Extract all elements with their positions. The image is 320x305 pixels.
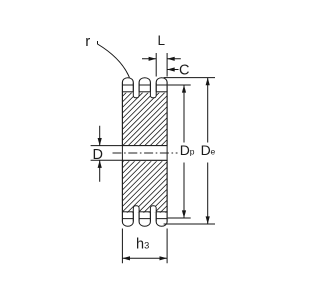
arrowhead h3 right <box>160 256 168 260</box>
groove top 1 <box>133 91 139 98</box>
arrowhead Dp top <box>182 85 186 93</box>
dim D arrow tails <box>99 126 101 182</box>
arrowhead De top <box>206 78 210 86</box>
body right edge <box>166 82 168 221</box>
dim Dp line <box>183 85 185 218</box>
svg-text:Dp: Dp <box>180 142 195 158</box>
dim Dp extension bottom <box>168 217 191 219</box>
tooth 2 bottom cap <box>139 212 150 226</box>
sprocket body lower hatched section outline <box>122 160 167 212</box>
tooth 3 top cap <box>156 78 167 92</box>
arrowhead Dp bottom <box>182 210 186 218</box>
sprocket body upper hatched section outline <box>122 92 167 146</box>
centerline <box>113 152 178 154</box>
bore band <box>122 146 167 161</box>
hatching of sectioned body <box>100 13 200 278</box>
svg-text:r: r <box>85 33 90 50</box>
tooth 1 top cap <box>122 78 133 92</box>
chamfer line bottom across teeth <box>122 218 167 220</box>
dim L arrow tails <box>142 58 181 60</box>
arrowhead D bottom <box>98 160 102 168</box>
arrowhead D top <box>98 138 102 146</box>
tooth 2 top cap <box>139 78 150 92</box>
arrowhead C <box>167 67 175 71</box>
svg-text:L: L <box>158 33 166 48</box>
dim L extension lines <box>156 53 167 77</box>
svg-text:D: D <box>93 147 103 163</box>
arrowhead h3 left <box>122 256 130 260</box>
dim C arrow tail <box>167 69 178 71</box>
tooth 1 bottom cap <box>122 212 133 227</box>
dim De extension top <box>164 77 215 79</box>
groove bottom 2 <box>150 206 156 213</box>
svg-text:h3: h3 <box>136 236 149 252</box>
leader line r <box>98 41 130 78</box>
groove bottom 1 <box>133 206 139 213</box>
dim h3 extension lines <box>122 229 167 264</box>
dim De extension bottom <box>164 223 215 225</box>
body left edge <box>121 82 123 221</box>
dim Dp extension top <box>168 84 191 86</box>
arrowhead L right <box>167 57 175 61</box>
tooth 3 bottom cap <box>156 212 167 226</box>
dim D extension lines <box>91 146 123 161</box>
arrowhead L left <box>149 57 157 61</box>
arrowhead De bottom <box>206 216 210 224</box>
dim De line <box>207 78 209 224</box>
svg-text:C: C <box>179 63 189 79</box>
groove top 2 <box>150 91 156 98</box>
chamfer line top across teeth <box>122 84 167 86</box>
svg-text:De: De <box>201 142 216 158</box>
dim h3 line <box>122 257 167 259</box>
